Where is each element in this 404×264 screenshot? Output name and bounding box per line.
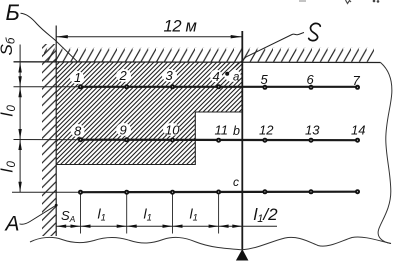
svg-text:1: 1 — [74, 70, 81, 85]
svg-text:12: 12 — [259, 123, 274, 138]
svg-text:a: a — [233, 72, 239, 84]
svg-text:c: c — [233, 175, 239, 189]
svg-text:l1/2: l1/2 — [254, 205, 279, 225]
svg-text:2: 2 — [119, 68, 128, 83]
svg-text:10: 10 — [165, 123, 180, 138]
svg-text:8: 8 — [74, 124, 82, 139]
svg-text:Б: Б — [6, 0, 20, 25]
svg-text:4: 4 — [213, 69, 220, 84]
svg-text:A: A — [4, 213, 20, 236]
svg-text:6: 6 — [307, 72, 315, 87]
svg-text:3: 3 — [166, 68, 174, 83]
svg-text:7: 7 — [353, 73, 361, 88]
svg-text:b: b — [233, 124, 240, 138]
svg-text:9: 9 — [120, 123, 127, 138]
svg-text:11: 11 — [215, 123, 229, 138]
svg-text:12 м: 12 м — [164, 18, 197, 36]
svg-text:5: 5 — [261, 72, 269, 87]
svg-text:13: 13 — [305, 123, 320, 138]
svg-text:14: 14 — [351, 123, 365, 138]
